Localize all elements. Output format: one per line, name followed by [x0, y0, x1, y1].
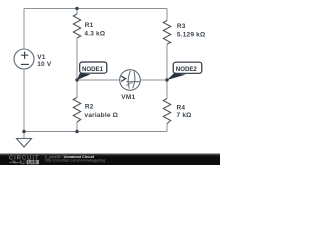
svg-text:7 kΩ: 7 kΩ [177, 112, 192, 119]
voltage source V1 [14, 49, 52, 69]
junction dot at R1 top node [75, 7, 78, 10]
svg-text:NODE1: NODE1 [82, 66, 104, 73]
svg-text:4.3 kΩ: 4.3 kΩ [84, 30, 105, 37]
ground [17, 132, 32, 148]
svg-text:R4: R4 [177, 105, 186, 112]
wire voltmeter left lead [77, 79, 120, 81]
svg-text:VM1: VM1 [121, 94, 135, 101]
svg-text:R2: R2 [85, 104, 94, 111]
wire bottom rail [24, 131, 167, 133]
svg-text:variable Ω: variable Ω [85, 112, 119, 119]
svg-text:5.129 kΩ: 5.129 kΩ [177, 31, 206, 38]
svg-text:R3: R3 [177, 23, 186, 30]
wire R2 bottom stub [76, 122, 78, 132]
wire voltmeter right lead [140, 79, 167, 81]
CircuitLab logo [9, 156, 40, 165]
wire R1 top stub [76, 9, 78, 15]
wire top rail from V1 to R3 column [24, 8, 167, 10]
junction dot node A (NODE1) [75, 78, 78, 81]
wire R3 top stub [166, 9, 168, 21]
resistor R1 4.3 kOhm [73, 14, 105, 38]
resistor R3 5.129 kOhm [163, 21, 205, 45]
resistor R2 variable [73, 98, 118, 123]
junction dot ground corner [22, 130, 25, 133]
node NODE2 flag [167, 62, 202, 80]
svg-text:R1: R1 [85, 22, 94, 29]
footer banner [0, 154, 220, 166]
wire left column upper (top rail to V1) [23, 9, 25, 50]
resistor R4 7 kOhm [163, 99, 191, 124]
svg-text:10 V: 10 V [37, 61, 52, 68]
svg-text:http://circuitlab.com/c4mba6ag: http://circuitlab.com/c4mba6agyefyg [45, 159, 106, 163]
voltmeter VM1 [120, 70, 141, 101]
node NODE1 flag [77, 62, 107, 80]
footer credit text [44, 155, 106, 163]
junction dot R2 bottom node [75, 130, 78, 133]
svg-text:LAB: LAB [28, 160, 37, 165]
svg-text:NODE2: NODE2 [176, 66, 198, 73]
junction dot node B (NODE2) [165, 78, 168, 81]
svg-text:V1: V1 [37, 54, 46, 61]
wire R3 bottom to R4 top (through node at y=80) [166, 44, 168, 99]
wire R1 bottom to R2 top (through node at y=80) [76, 38, 78, 98]
wire left column lower (V1 to bottom rail) [23, 69, 25, 132]
wire R4 bottom stub [166, 124, 168, 132]
